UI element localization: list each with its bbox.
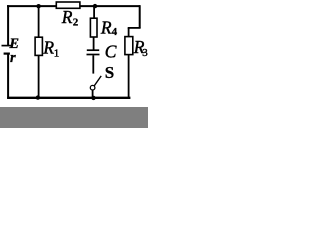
wire middle branch top: [93, 6, 95, 18]
wire right upper: [139, 5, 141, 28]
wire left upper: [7, 5, 9, 45]
svg-text:r: r: [10, 50, 16, 66]
resistor R1: [35, 37, 42, 55]
svg-text:R: R: [100, 17, 112, 37]
wire switch to bottom: [92, 90, 94, 98]
wire top: [7, 5, 140, 7]
capacitor C: [87, 50, 100, 54]
resistor R4: [90, 18, 97, 37]
wire right jog: [128, 27, 141, 29]
svg-text:3: 3: [142, 47, 148, 59]
gray band: [0, 107, 148, 128]
resistor R3: [125, 37, 133, 55]
svg-text:R: R: [42, 37, 54, 57]
wire bottom: [7, 97, 130, 99]
node top-left junction: [36, 4, 40, 8]
wire R1 branch bottom: [38, 55, 40, 97]
resistor R2: [56, 2, 80, 8]
svg-text:R: R: [61, 7, 73, 27]
background: [0, 0, 148, 128]
svg-text:1: 1: [54, 48, 60, 60]
svg-text:4: 4: [112, 26, 118, 38]
wire left lower: [7, 54, 9, 99]
wire R4 to C: [93, 37, 95, 50]
node bottom-left junction: [36, 95, 40, 99]
svg-text:2: 2: [73, 17, 79, 29]
wire R3 branch top: [128, 28, 130, 37]
switch S: [90, 76, 101, 90]
battery E r: [2, 46, 14, 54]
wire R3 branch bottom: [128, 55, 130, 99]
svg-text:C: C: [105, 41, 117, 61]
node bottom-middle junction: [91, 96, 95, 100]
wire C to switch: [92, 55, 94, 73]
node top-middle junction: [93, 4, 97, 8]
svg-text:S: S: [105, 63, 114, 82]
wire R1 branch top: [38, 6, 40, 37]
